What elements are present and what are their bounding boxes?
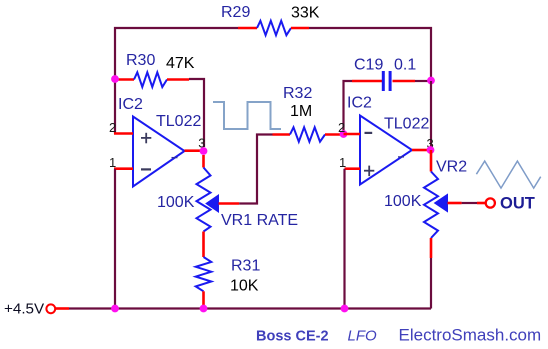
svg-text:TL022: TL022 — [156, 113, 201, 130]
svg-text:1M: 1M — [290, 103, 312, 120]
wire: left vertical + top rail left segment — [115, 28, 238, 134]
label 100K VR1 — [157, 194, 195, 211]
pin number 2 (right) — [338, 120, 345, 135]
pin number 1 (right) — [339, 155, 346, 170]
wire: VR1 wiper to R32 — [219, 135, 273, 204]
svg-text:2: 2 — [338, 120, 345, 135]
value 1M — [290, 103, 312, 120]
caption Boss CE-2 — [256, 329, 329, 345]
junction dot op-amp2 output — [427, 146, 435, 154]
svg-text:ElectroSmash.com: ElectroSmash.com — [399, 326, 542, 345]
svg-text:47K: 47K — [166, 55, 195, 72]
capacitor C19 — [352, 71, 415, 91]
label IC2 (left) — [118, 96, 143, 113]
apex dash op-amp2 — [398, 156, 404, 158]
svg-text:Boss CE-2: Boss CE-2 — [256, 329, 329, 345]
label R32 — [283, 85, 312, 102]
pin number 3 (right) — [427, 136, 434, 151]
svg-text:R32: R32 — [283, 85, 312, 102]
potentiometer VR2 body — [424, 150, 438, 258]
VR2 wiper arrow — [435, 194, 448, 211]
resistor R29 — [238, 21, 309, 35]
resistor R30 — [115, 72, 189, 87]
svg-text:33K: 33K — [291, 5, 320, 22]
svg-text:LFO: LFO — [348, 328, 378, 345]
junction dot R32/pin2 — [340, 130, 348, 138]
label R29 — [221, 4, 250, 21]
wire: right vertical middle — [430, 81, 432, 150]
VR1 wiper arrow — [206, 195, 219, 212]
junction dot R30 left — [111, 75, 119, 83]
label 100K VR2 — [384, 193, 422, 210]
wire: C19 right to right vertical — [415, 80, 431, 82]
apex dash op-amp1 — [172, 157, 178, 159]
svg-text:TL022: TL022 — [384, 116, 429, 133]
op-amp U2 IC2 triangle — [360, 116, 412, 185]
op-amp U1 IC2 triangle — [133, 117, 185, 187]
svg-text:1: 1 — [339, 155, 346, 170]
triangle wave symbol — [476, 161, 540, 188]
minus sign op-amp1 — [141, 168, 151, 170]
plus sign op-amp2 — [364, 166, 374, 177]
wire: VR2 wiper to OUT — [448, 202, 486, 205]
plus sign op-amp1 — [141, 133, 151, 144]
OUT terminal circle — [486, 198, 495, 207]
caption LFO — [348, 328, 378, 345]
resistor R31 — [196, 257, 212, 309]
svg-text:100K: 100K — [157, 194, 195, 211]
value 10K — [230, 278, 259, 295]
value 0.1 — [394, 57, 416, 74]
minus sign op-amp2 — [365, 132, 373, 134]
label OUT — [500, 195, 535, 213]
junction dot rail R31 — [200, 305, 208, 313]
pin 2 stub op-amp2 — [344, 133, 361, 136]
pin number 1 (left) — [109, 155, 116, 170]
label C19 — [354, 57, 383, 74]
wire: top rail right segment + right vertical top — [309, 28, 431, 81]
value 47K — [166, 55, 195, 72]
+4.5V terminal circle — [46, 304, 55, 313]
svg-text:0.1: 0.1 — [394, 57, 416, 74]
svg-text:VR2: VR2 — [436, 159, 467, 176]
wire: pin1 op-amp1 down to bottom rail — [114, 169, 116, 309]
wire: pin1 op-amp2 down to bottom rail — [343, 169, 345, 309]
svg-text:IC2: IC2 — [347, 95, 372, 112]
junction dot rail pin1 — [341, 305, 349, 313]
svg-text:R30: R30 — [126, 52, 155, 69]
svg-text:100K: 100K — [384, 193, 422, 210]
label R30 — [126, 52, 155, 69]
potentiometer VR1 body — [197, 155, 211, 257]
label TL022 (left) — [156, 113, 201, 130]
label TL022 (right) — [384, 116, 429, 133]
svg-text:IC2: IC2 — [118, 96, 143, 113]
svg-text:+4.5V: +4.5V — [4, 301, 45, 318]
svg-text:R31: R31 — [231, 258, 260, 275]
caption ElectroSmash.com — [399, 326, 542, 345]
pin 3 output stub op-amp2 — [412, 149, 427, 152]
junction dot op-amp1 output — [200, 147, 208, 155]
bottom rail — [55, 307, 431, 310]
label +4.5V — [4, 301, 45, 318]
junction dot C19 right — [427, 77, 435, 85]
pin 2 stub op-amp1 — [114, 132, 133, 135]
svg-text:VR1 RATE: VR1 RATE — [221, 212, 298, 229]
label R31 — [231, 258, 260, 275]
wire: C19 branch vertical + horizontal — [344, 81, 353, 134]
wire: VR2 bottom to rail — [430, 258, 432, 309]
svg-text:C19: C19 — [354, 57, 383, 74]
resistor R32 — [273, 127, 343, 141]
wire: R30 right to op-amp1 output node — [189, 79, 204, 147]
pin 3 output stub op-amp1 — [185, 149, 201, 152]
svg-text:10K: 10K — [230, 278, 259, 295]
label IC2 (right) — [347, 95, 372, 112]
svg-text:1: 1 — [109, 155, 116, 170]
svg-text:2: 2 — [109, 120, 116, 135]
label VR1 RATE — [221, 212, 298, 229]
junction dot rail left — [111, 305, 119, 313]
svg-text:OUT: OUT — [500, 195, 535, 213]
svg-text:R29: R29 — [221, 4, 250, 21]
pin number 3 (left) — [198, 136, 205, 151]
label VR2 — [436, 159, 467, 176]
square wave symbol — [213, 102, 281, 129]
pin 1 stub op-amp1 — [114, 167, 133, 170]
pin number 2 (left) — [109, 120, 116, 135]
value 33K — [291, 5, 320, 22]
pin 1 stub op-amp2 — [345, 167, 361, 170]
